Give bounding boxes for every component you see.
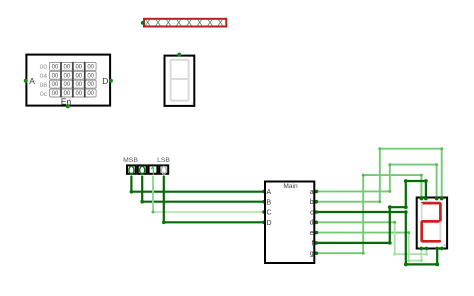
svg-text:00: 00 <box>75 64 82 70</box>
svg-text:D: D <box>102 76 108 86</box>
svg-text:00: 00 <box>87 73 94 79</box>
svg-text:a: a <box>310 189 314 196</box>
svg-text:04: 04 <box>40 73 48 80</box>
svg-text:g: g <box>310 251 314 258</box>
svg-text:f: f <box>312 240 314 247</box>
svg-text:X: X <box>176 18 182 28</box>
svg-text:X: X <box>218 18 224 28</box>
svg-text:00: 00 <box>52 82 59 88</box>
svg-text:X: X <box>207 18 213 28</box>
svg-text:08: 08 <box>40 82 48 89</box>
svg-text:A: A <box>29 76 35 86</box>
svg-text:X: X <box>145 18 151 28</box>
svg-text:B: B <box>267 199 272 206</box>
svg-text:b: b <box>310 199 314 206</box>
svg-text:X: X <box>155 18 161 28</box>
svg-text:00: 00 <box>64 82 71 88</box>
svg-text:00: 00 <box>64 64 71 70</box>
svg-text:MSB: MSB <box>123 157 138 164</box>
svg-text:D: D <box>267 220 272 227</box>
svg-text:X: X <box>166 18 172 28</box>
svg-text:00: 00 <box>64 73 71 79</box>
svg-text:A: A <box>267 189 272 196</box>
svg-text:C: C <box>267 210 272 217</box>
svg-text:00: 00 <box>87 82 94 88</box>
svg-text:d: d <box>310 220 314 227</box>
svg-text:00: 00 <box>87 91 94 97</box>
svg-text:00: 00 <box>75 91 82 97</box>
svg-text:00: 00 <box>87 64 94 70</box>
svg-text:00: 00 <box>52 91 59 97</box>
svg-text:LSB: LSB <box>157 157 170 164</box>
svg-text:X: X <box>186 18 192 28</box>
svg-text:00: 00 <box>40 64 48 71</box>
svg-text:c: c <box>310 209 314 216</box>
svg-text:0c: 0c <box>40 91 48 98</box>
svg-text:X: X <box>197 18 203 28</box>
svg-text:00: 00 <box>52 73 59 79</box>
svg-text:Main: Main <box>283 183 298 190</box>
svg-text:00: 00 <box>75 82 82 88</box>
svg-text:e: e <box>310 230 314 237</box>
svg-text:00: 00 <box>75 73 82 79</box>
svg-text:00: 00 <box>52 64 59 70</box>
